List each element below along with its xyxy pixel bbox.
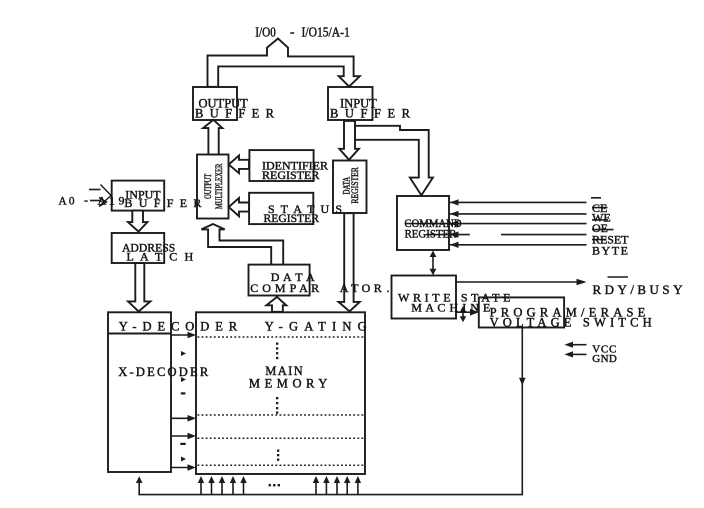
svg-text:REGISTER: REGISTER [350,167,360,204]
svg-text:REGISTER: REGISTER [264,211,320,225]
svg-text:MULTIPLEXER: MULTIPLEXER [214,164,224,210]
svg-text:-: - [84,193,88,207]
svg-text:RDY/BUSY: RDY/BUSY [593,282,684,297]
svg-text:GND: GND [592,353,617,365]
svg-text:REGISTER: REGISTER [262,168,319,182]
svg-text:M A C H I N E: M A C H I N E [411,301,490,315]
svg-text:REGISTER: REGISTER [405,227,457,241]
svg-text:A T O R: A T O R [340,281,382,295]
svg-text:B U F F E R: B U F F E R [195,107,275,121]
svg-text:-: - [290,24,295,39]
svg-text:B U F F E R: B U F F E R [124,196,201,210]
svg-text:.: . [387,281,390,295]
svg-text:X-DECODER: X-DECODER [118,365,209,379]
svg-text:OUTPUT: OUTPUT [203,173,213,199]
svg-text:B U F F E R: B U F F E R [330,107,411,121]
svg-text:BYTE: BYTE [592,243,628,257]
svg-text:I/O15/A-1: I/O15/A-1 [302,24,350,39]
svg-text:A 0: A 0 [59,194,75,208]
svg-text:C O M P A R: C O M P A R [250,281,319,295]
svg-text:I/O0: I/O0 [255,24,276,39]
svg-text:A 1 9: A 1 9 [98,194,125,208]
